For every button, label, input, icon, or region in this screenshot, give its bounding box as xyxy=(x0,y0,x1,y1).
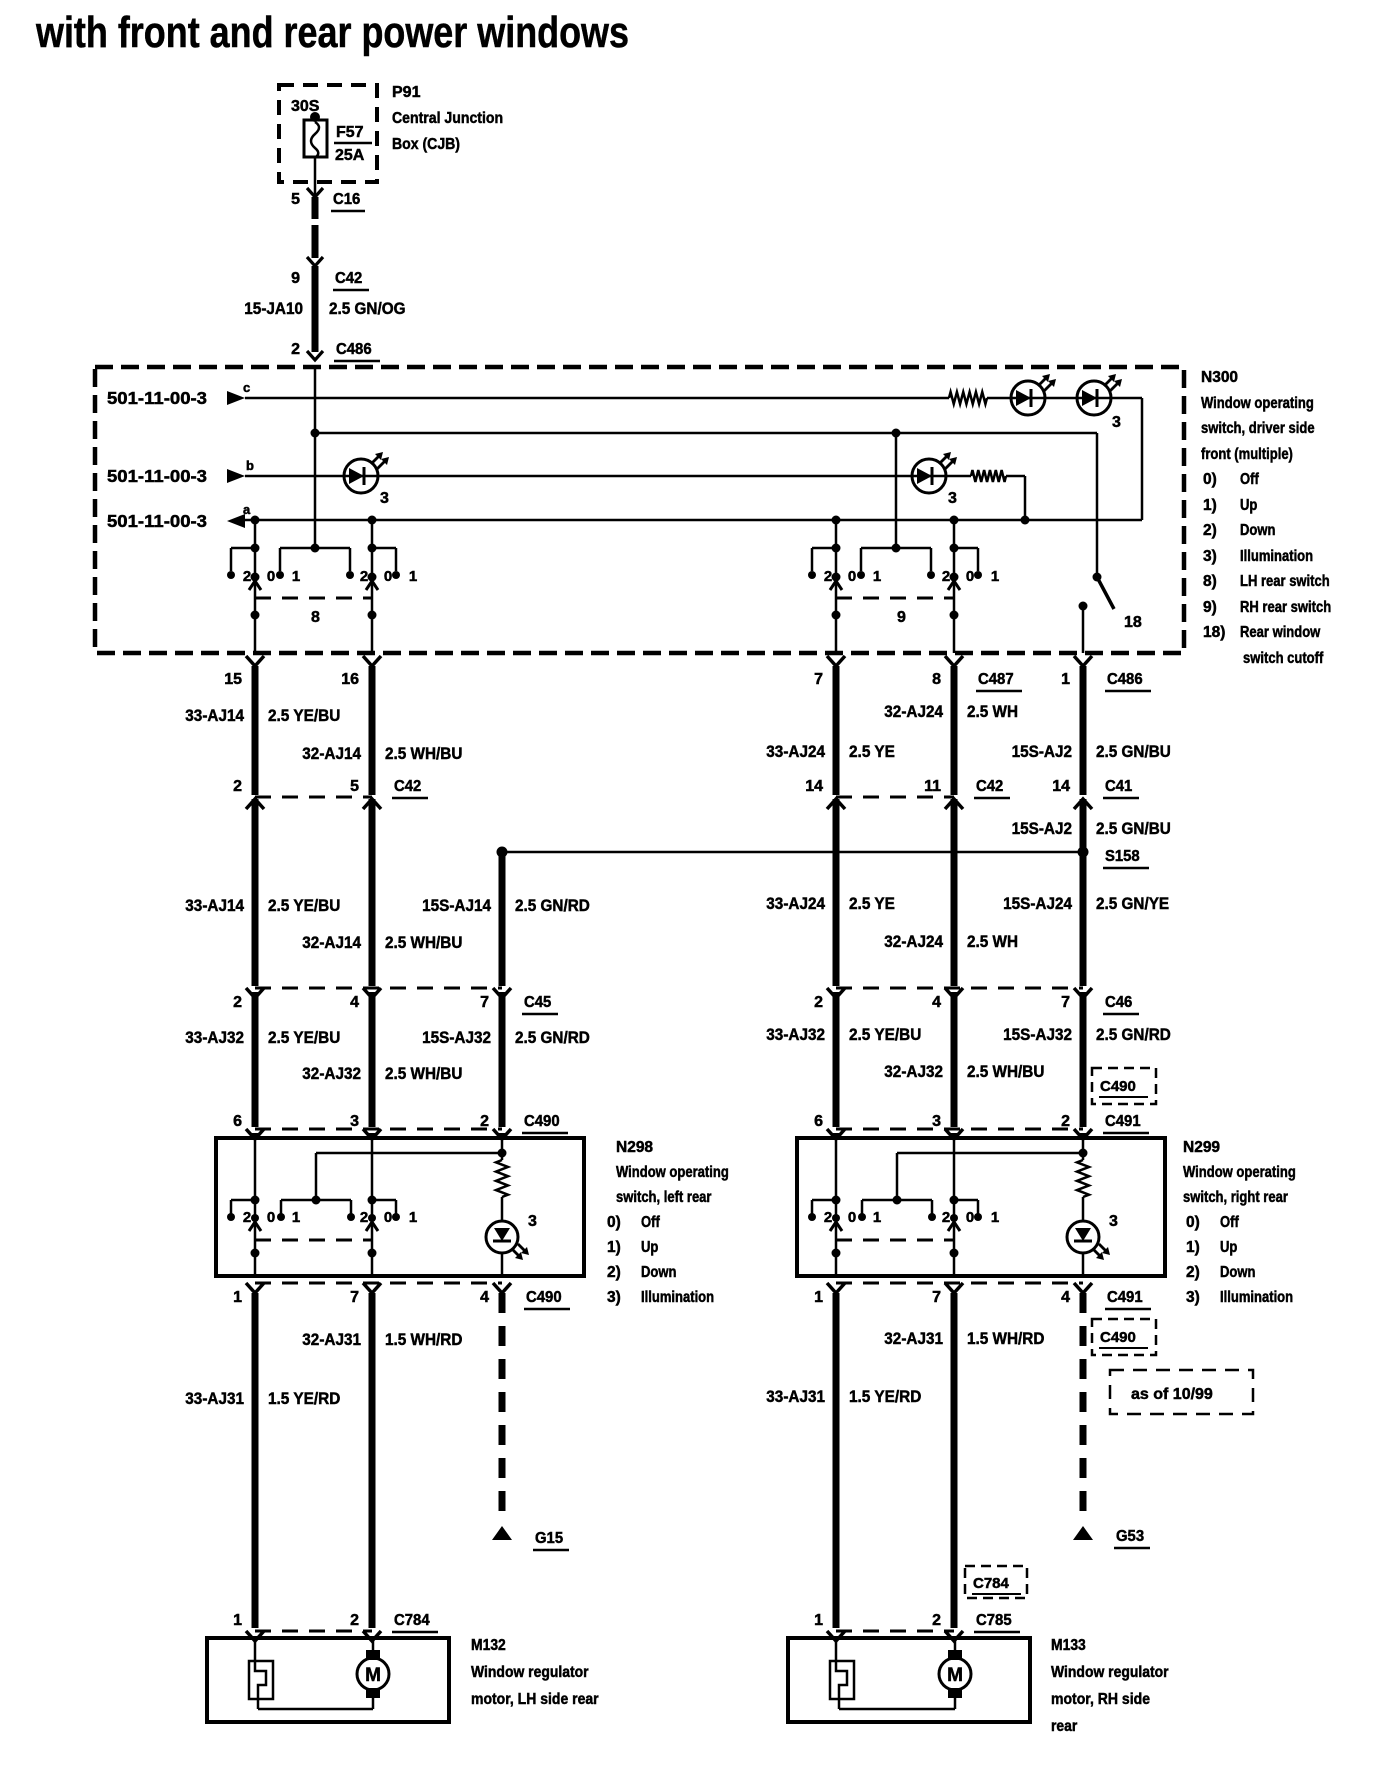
svg-text:Central Junction: Central Junction xyxy=(392,110,503,127)
svg-text:1.5 YE/RD: 1.5 YE/RD xyxy=(849,1387,921,1406)
svg-text:C784: C784 xyxy=(394,1612,430,1629)
svg-text:2: 2 xyxy=(932,1612,941,1629)
svg-text:F57: F57 xyxy=(336,124,364,141)
svg-text:7: 7 xyxy=(480,994,489,1011)
svg-text:M: M xyxy=(365,1665,381,1686)
svg-text:2.5 YE/BU: 2.5 YE/BU xyxy=(268,706,340,725)
svg-text:33-AJ31: 33-AJ31 xyxy=(766,1387,825,1406)
svg-text:C45: C45 xyxy=(524,994,551,1011)
svg-text:1: 1 xyxy=(814,1289,823,1306)
svg-text:2.5 WH/BU: 2.5 WH/BU xyxy=(385,744,462,763)
svg-text:1: 1 xyxy=(233,1612,242,1629)
svg-text:Illumination: Illumination xyxy=(641,1289,714,1306)
svg-text:0: 0 xyxy=(966,568,974,585)
svg-text:Rear window: Rear window xyxy=(1240,624,1321,641)
svg-text:15S-AJ32: 15S-AJ32 xyxy=(1003,1025,1072,1044)
svg-text:2: 2 xyxy=(1061,1113,1070,1130)
svg-text:Down: Down xyxy=(1220,1264,1255,1281)
svg-text:4: 4 xyxy=(932,994,941,1011)
svg-text:C486: C486 xyxy=(1107,671,1143,688)
svg-text:C490: C490 xyxy=(524,1113,560,1130)
svg-text:b: b xyxy=(246,458,254,473)
svg-text:C42: C42 xyxy=(394,778,421,795)
svg-text:2.5 GN/RD: 2.5 GN/RD xyxy=(1096,1025,1171,1044)
svg-text:6: 6 xyxy=(233,1113,242,1130)
svg-text:5: 5 xyxy=(350,778,359,795)
svg-text:2: 2 xyxy=(942,568,950,585)
svg-text:2: 2 xyxy=(360,1209,368,1226)
svg-text:Window operating: Window operating xyxy=(1201,395,1314,412)
svg-text:7: 7 xyxy=(814,671,823,688)
svg-text:1.5 YE/RD: 1.5 YE/RD xyxy=(268,1389,340,1408)
svg-text:32-AJ31: 32-AJ31 xyxy=(884,1329,943,1348)
svg-text:2: 2 xyxy=(360,568,368,585)
svg-text:C487: C487 xyxy=(978,671,1014,688)
svg-text:1): 1) xyxy=(607,1239,621,1256)
svg-text:a: a xyxy=(243,502,251,517)
svg-text:as of 10/99: as of 10/99 xyxy=(1131,1386,1213,1403)
svg-text:1: 1 xyxy=(409,1209,417,1226)
svg-text:1: 1 xyxy=(409,568,417,585)
svg-text:2: 2 xyxy=(824,1209,832,1226)
svg-text:2: 2 xyxy=(233,994,242,1011)
svg-text:501-11-00-3: 501-11-00-3 xyxy=(107,466,207,486)
svg-text:C486: C486 xyxy=(336,341,372,358)
svg-text:2: 2 xyxy=(480,1113,489,1130)
svg-text:2.5 GN/OG: 2.5 GN/OG xyxy=(329,299,406,318)
svg-text:33-AJ14: 33-AJ14 xyxy=(185,706,244,725)
svg-text:3): 3) xyxy=(1186,1289,1200,1306)
svg-text:8: 8 xyxy=(311,609,320,626)
svg-text:RH rear switch: RH rear switch xyxy=(1240,599,1331,616)
svg-text:33-AJ24: 33-AJ24 xyxy=(766,742,825,761)
svg-text:7: 7 xyxy=(1061,994,1070,1011)
svg-text:C785: C785 xyxy=(976,1612,1012,1629)
svg-text:8): 8) xyxy=(1203,573,1217,590)
svg-text:switch cutoff: switch cutoff xyxy=(1243,650,1324,667)
svg-text:501-11-00-3: 501-11-00-3 xyxy=(107,511,207,531)
svg-text:Down: Down xyxy=(641,1264,676,1281)
svg-text:7: 7 xyxy=(932,1289,941,1306)
svg-text:33-AJ31: 33-AJ31 xyxy=(185,1389,244,1408)
svg-text:front (multiple): front (multiple) xyxy=(1201,446,1293,463)
svg-text:switch, right rear: switch, right rear xyxy=(1183,1189,1288,1206)
svg-text:Off: Off xyxy=(1220,1214,1239,1231)
svg-text:33-AJ32: 33-AJ32 xyxy=(185,1028,244,1047)
svg-text:0: 0 xyxy=(267,1209,275,1226)
svg-text:2.5 GN/BU: 2.5 GN/BU xyxy=(1096,742,1171,761)
svg-text:Illumination: Illumination xyxy=(1220,1289,1293,1306)
svg-text:2: 2 xyxy=(243,568,251,585)
svg-text:8: 8 xyxy=(932,671,941,688)
svg-text:15S-AJ24: 15S-AJ24 xyxy=(1003,894,1072,913)
svg-text:C41: C41 xyxy=(1105,778,1132,795)
svg-text:3): 3) xyxy=(607,1289,621,1306)
svg-text:Up: Up xyxy=(1220,1239,1237,1256)
svg-text:32-AJ14: 32-AJ14 xyxy=(302,744,361,763)
svg-text:2: 2 xyxy=(824,568,832,585)
svg-text:N300: N300 xyxy=(1201,369,1238,386)
svg-text:15S-AJ32: 15S-AJ32 xyxy=(422,1028,491,1047)
svg-text:3: 3 xyxy=(1109,1213,1118,1230)
svg-text:3: 3 xyxy=(528,1213,537,1230)
svg-text:2): 2) xyxy=(1203,522,1217,539)
svg-text:5: 5 xyxy=(291,191,300,208)
svg-text:25A: 25A xyxy=(335,147,365,164)
svg-text:c: c xyxy=(243,380,250,395)
svg-text:501-11-00-3: 501-11-00-3 xyxy=(107,388,207,408)
svg-text:6: 6 xyxy=(814,1113,823,1130)
svg-text:N298: N298 xyxy=(616,1139,653,1156)
svg-text:1: 1 xyxy=(814,1612,823,1629)
svg-text:9): 9) xyxy=(1203,599,1217,616)
svg-text:32-AJ24: 32-AJ24 xyxy=(884,932,943,951)
svg-text:LH rear switch: LH rear switch xyxy=(1240,573,1330,590)
svg-text:2: 2 xyxy=(291,341,300,358)
svg-text:2.5 GN/BU: 2.5 GN/BU xyxy=(1096,819,1171,838)
svg-text:0: 0 xyxy=(848,1209,856,1226)
svg-text:11: 11 xyxy=(924,778,941,795)
svg-text:2): 2) xyxy=(1186,1264,1200,1281)
svg-text:14: 14 xyxy=(1052,778,1070,795)
svg-text:C490: C490 xyxy=(1100,1329,1136,1346)
svg-text:3: 3 xyxy=(380,490,389,507)
svg-text:motor, LH side rear: motor, LH side rear xyxy=(471,1691,599,1708)
svg-text:18: 18 xyxy=(1124,614,1142,631)
svg-text:2: 2 xyxy=(350,1612,359,1629)
svg-text:33-AJ24: 33-AJ24 xyxy=(766,894,825,913)
svg-text:Box (CJB): Box (CJB) xyxy=(392,136,460,153)
svg-text:2.5 WH/BU: 2.5 WH/BU xyxy=(385,1064,462,1083)
svg-text:3: 3 xyxy=(932,1113,941,1130)
svg-text:1: 1 xyxy=(292,568,300,585)
svg-text:15: 15 xyxy=(224,671,242,688)
svg-text:Illumination: Illumination xyxy=(1240,548,1313,565)
svg-text:32-AJ32: 32-AJ32 xyxy=(884,1062,943,1081)
svg-text:2.5 WH: 2.5 WH xyxy=(967,932,1018,951)
svg-text:1: 1 xyxy=(991,568,999,585)
svg-text:C784: C784 xyxy=(973,1575,1010,1592)
svg-text:Window operating: Window operating xyxy=(616,1164,729,1181)
svg-text:N299: N299 xyxy=(1183,1139,1220,1156)
svg-text:Up: Up xyxy=(1240,497,1257,514)
svg-text:32-AJ14: 32-AJ14 xyxy=(302,933,361,952)
svg-text:G15: G15 xyxy=(535,1530,563,1547)
svg-text:2.5 YE: 2.5 YE xyxy=(849,742,895,761)
svg-text:Window regulator: Window regulator xyxy=(471,1664,589,1681)
svg-text:C490: C490 xyxy=(526,1289,562,1306)
svg-text:Off: Off xyxy=(1240,471,1259,488)
svg-text:2.5 GN/YE: 2.5 GN/YE xyxy=(1096,894,1169,913)
svg-text:33-AJ14: 33-AJ14 xyxy=(185,896,244,915)
svg-text:3: 3 xyxy=(1112,414,1121,431)
svg-text:1: 1 xyxy=(292,1209,300,1226)
svg-text:Window regulator: Window regulator xyxy=(1051,1664,1169,1681)
svg-text:S158: S158 xyxy=(1105,848,1140,865)
svg-text:2.5 YE/BU: 2.5 YE/BU xyxy=(268,896,340,915)
svg-text:2.5 YE/BU: 2.5 YE/BU xyxy=(849,1025,921,1044)
svg-text:0): 0) xyxy=(607,1214,621,1231)
svg-text:Down: Down xyxy=(1240,522,1275,539)
svg-text:4: 4 xyxy=(480,1289,489,1306)
svg-text:32-AJ31: 32-AJ31 xyxy=(302,1330,361,1349)
svg-text:0): 0) xyxy=(1186,1214,1200,1231)
svg-text:2): 2) xyxy=(607,1264,621,1281)
svg-text:motor, RH side: motor, RH side xyxy=(1051,1691,1150,1708)
svg-text:C42: C42 xyxy=(976,778,1003,795)
svg-text:3: 3 xyxy=(350,1113,359,1130)
svg-text:rear: rear xyxy=(1051,1718,1077,1735)
svg-text:G53: G53 xyxy=(1116,1528,1144,1545)
svg-text:M133: M133 xyxy=(1051,1637,1086,1654)
svg-text:2: 2 xyxy=(243,1209,251,1226)
svg-text:M132: M132 xyxy=(471,1637,506,1654)
svg-text:0: 0 xyxy=(384,568,392,585)
svg-text:16: 16 xyxy=(341,671,359,688)
svg-text:P91: P91 xyxy=(392,84,421,101)
svg-text:4: 4 xyxy=(1061,1289,1070,1306)
svg-text:0: 0 xyxy=(966,1209,974,1226)
svg-text:33-AJ32: 33-AJ32 xyxy=(766,1025,825,1044)
svg-text:1.5 WH/RD: 1.5 WH/RD xyxy=(967,1329,1044,1348)
svg-text:9: 9 xyxy=(291,270,300,287)
svg-text:15-JA10: 15-JA10 xyxy=(244,299,303,318)
svg-text:14: 14 xyxy=(805,778,823,795)
svg-text:0: 0 xyxy=(848,568,856,585)
svg-text:C46: C46 xyxy=(1105,994,1132,1011)
svg-text:1: 1 xyxy=(873,568,881,585)
svg-text:C42: C42 xyxy=(335,270,362,287)
svg-text:C491: C491 xyxy=(1105,1113,1141,1130)
svg-text:2.5 GN/RD: 2.5 GN/RD xyxy=(515,896,590,915)
svg-text:switch, left rear: switch, left rear xyxy=(616,1189,712,1206)
svg-text:1.5 WH/RD: 1.5 WH/RD xyxy=(385,1330,462,1349)
svg-text:2.5 WH: 2.5 WH xyxy=(967,702,1018,721)
svg-text:C490: C490 xyxy=(1100,1078,1136,1095)
svg-text:2.5 YE/BU: 2.5 YE/BU xyxy=(268,1028,340,1047)
svg-text:15S-AJ2: 15S-AJ2 xyxy=(1012,819,1072,838)
svg-text:switch, driver side: switch, driver side xyxy=(1201,420,1315,437)
svg-text:C491: C491 xyxy=(1107,1289,1143,1306)
svg-text:Window operating: Window operating xyxy=(1183,1164,1296,1181)
svg-text:1): 1) xyxy=(1186,1239,1200,1256)
svg-text:Up: Up xyxy=(641,1239,658,1256)
svg-text:with front and rear power wind: with front and rear power windows xyxy=(35,8,629,57)
svg-text:Off: Off xyxy=(641,1214,660,1231)
svg-text:7: 7 xyxy=(350,1289,359,1306)
svg-text:15S-AJ14: 15S-AJ14 xyxy=(422,896,491,915)
svg-text:1: 1 xyxy=(991,1209,999,1226)
svg-text:0: 0 xyxy=(267,568,275,585)
svg-text:2.5 WH/BU: 2.5 WH/BU xyxy=(967,1062,1044,1081)
svg-text:32-AJ32: 32-AJ32 xyxy=(302,1064,361,1083)
svg-text:1: 1 xyxy=(233,1289,242,1306)
svg-text:3: 3 xyxy=(948,490,957,507)
svg-text:0): 0) xyxy=(1203,471,1217,488)
svg-text:18): 18) xyxy=(1203,624,1225,641)
svg-text:2: 2 xyxy=(942,1209,950,1226)
svg-text:2.5 YE: 2.5 YE xyxy=(849,894,895,913)
svg-text:C16: C16 xyxy=(333,191,360,208)
svg-text:32-AJ24: 32-AJ24 xyxy=(884,702,943,721)
svg-text:2.5 WH/BU: 2.5 WH/BU xyxy=(385,933,462,952)
svg-text:M: M xyxy=(947,1665,963,1686)
svg-text:2: 2 xyxy=(233,778,242,795)
svg-text:1: 1 xyxy=(873,1209,881,1226)
svg-text:2.5 GN/RD: 2.5 GN/RD xyxy=(515,1028,590,1047)
svg-text:0: 0 xyxy=(384,1209,392,1226)
svg-text:3): 3) xyxy=(1203,548,1217,565)
svg-text:1): 1) xyxy=(1203,497,1217,514)
svg-text:1: 1 xyxy=(1061,671,1070,688)
svg-text:9: 9 xyxy=(897,609,906,626)
svg-text:2: 2 xyxy=(814,994,823,1011)
svg-text:4: 4 xyxy=(350,994,359,1011)
svg-text:15S-AJ2: 15S-AJ2 xyxy=(1012,742,1072,761)
